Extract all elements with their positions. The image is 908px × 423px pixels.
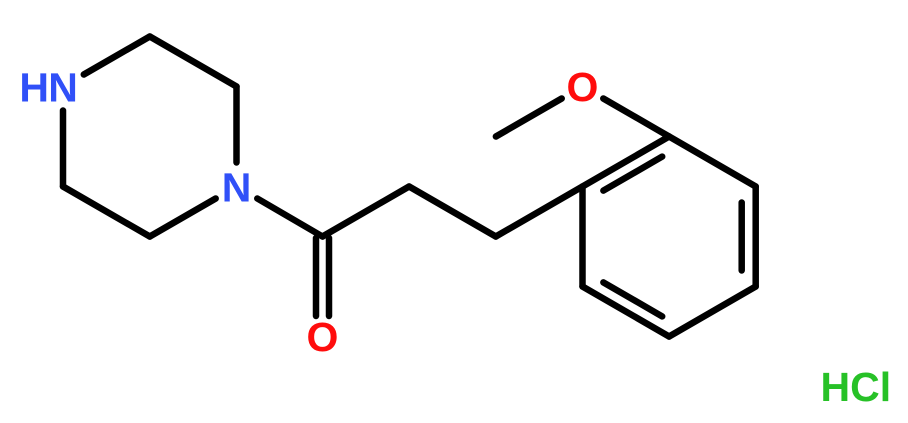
svg-text:HCl: HCl [821, 364, 892, 410]
wire carbonyl C7=O double bond left line [313, 238, 320, 316]
wire carbonyl C7=O double bond right line [326, 238, 333, 316]
wire methoxy O-CH3 bond [496, 99, 562, 137]
node HN piperazine nitrogen label [19, 64, 77, 110]
wire amide N4-C7 bond [257, 199, 322, 237]
wire benzene B6-B1 bond [579, 187, 586, 287]
svg-text:O: O [307, 314, 339, 360]
wire benzene B1-B2 bond [583, 137, 670, 187]
wire piperazine C2-C3 bond [150, 37, 237, 87]
wire benzene B3-B4 bond [752, 187, 759, 287]
wire benzene B5-B6 inner aromatic line [603, 282, 662, 316]
wire chain C8-C9 bond [409, 187, 496, 237]
wire benzene B5-B6 bond [583, 287, 670, 337]
wire chain C9-benzene ipso bond [496, 187, 583, 237]
wire piperazine N4-C5 bond [150, 199, 216, 237]
svg-text:N: N [222, 164, 252, 210]
wire chain C7-C8 bond [323, 187, 410, 237]
wire benzene B4-B5 bond [669, 287, 756, 337]
svg-text:N: N [48, 64, 78, 110]
wire piperazine C6-N1 bond (vertical left) [60, 111, 67, 187]
wire benzene B3-B4 inner aromatic line [738, 203, 745, 271]
wire benzene B2-B3 bond [669, 137, 756, 187]
wire piperazine N1-C2 bond (HN up-right) [84, 37, 150, 75]
wire methoxy O-B2 bond [603, 99, 669, 137]
wire piperazine C5-C6 bond [63, 187, 150, 237]
wire benzene B1-B2 inner aromatic line [603, 157, 662, 191]
svg-text:O: O [567, 64, 599, 110]
svg-text:H: H [19, 64, 49, 110]
wire piperazine C3-N4 bond (vertical right) [233, 87, 240, 163]
